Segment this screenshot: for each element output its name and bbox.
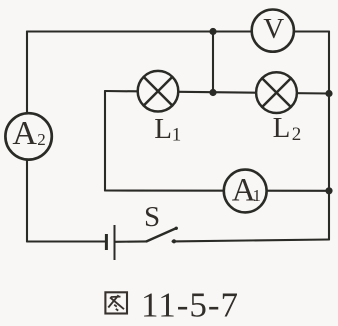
wire lamp row (through L1 and L2) — [105, 91, 329, 94]
ammeter A1 circle — [224, 170, 267, 213]
wire right vertical — [328, 32, 330, 240]
ammeter A2 circle — [5, 113, 51, 159]
ammeter A2 label — [12, 115, 45, 152]
junction node lamp row — [209, 89, 216, 96]
svg-text:S: S — [144, 201, 160, 233]
junction node right A1 row — [325, 187, 332, 194]
svg-text:2: 2 — [37, 130, 46, 149]
wire bottom-left to battery — [27, 240, 105, 242]
wire top (from top-left corner to top-right corner, through V) — [27, 30, 329, 32]
lamp L2 circle with cross — [256, 72, 297, 113]
wire battery to switch pivot — [116, 240, 147, 243]
junction node right lamp row — [325, 90, 332, 97]
voltmeter V circle — [252, 10, 294, 52]
svg-text:V: V — [263, 13, 284, 45]
battery (cell) — [106, 225, 114, 260]
svg-text:2: 2 — [292, 124, 302, 145]
wire left-middle vertical — [104, 91, 106, 191]
wire switch to bottom-right corner — [173, 240, 330, 242]
junction node top (V branch tap) — [209, 28, 216, 35]
svg-text:11-5-7: 11-5-7 — [141, 285, 239, 324]
lamp L1 circle with cross — [138, 71, 179, 112]
svg-text:L: L — [273, 112, 291, 144]
wire A1 row — [105, 189, 329, 191]
switch S blade — [147, 228, 177, 241]
wire middle vertical (voltmeter branch) — [212, 32, 214, 93]
svg-text:1: 1 — [172, 125, 182, 146]
switch blade tip — [175, 227, 178, 230]
lamp L1 label — [154, 113, 181, 146]
wire left vertical — [26, 32, 28, 242]
lamp L2 label — [273, 112, 302, 145]
ammeter A1 label — [232, 172, 261, 208]
switch right contact — [172, 239, 176, 243]
svg-text:L: L — [154, 113, 172, 145]
svg-text:A: A — [12, 115, 37, 152]
caption character 图 (drawn) — [105, 292, 127, 313]
svg-text:1: 1 — [253, 186, 262, 205]
